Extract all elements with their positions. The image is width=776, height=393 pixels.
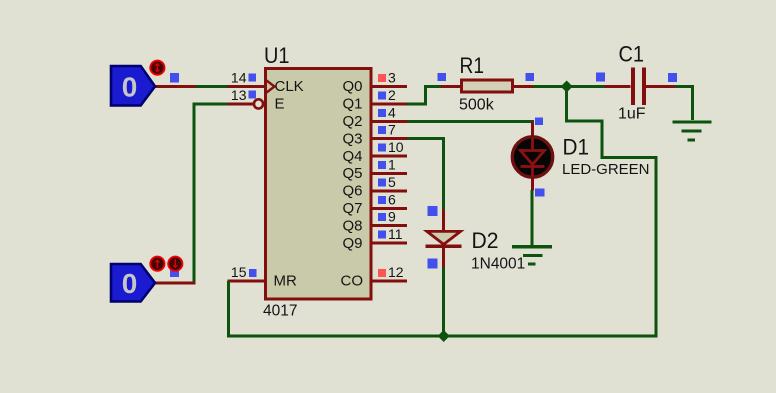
pin 13 stub <box>227 102 254 105</box>
toggle actuator bottom-1 (up arrow) <box>150 257 164 271</box>
svg-text:R1: R1 <box>460 53 485 78</box>
node square D2 bottom <box>428 259 438 269</box>
op-amp U1 body <box>266 69 372 300</box>
pin 9 stub Q8 <box>372 224 408 227</box>
svg-text:9: 9 <box>388 209 396 225</box>
svg-text:10: 10 <box>388 139 404 155</box>
pin 1 stub Q5 <box>372 172 408 175</box>
node square pin1 <box>378 161 386 169</box>
pin 14 stub <box>227 85 265 88</box>
svg-text:13: 13 <box>231 87 247 103</box>
pin 12 stub CO <box>372 279 408 282</box>
svg-text:Q7: Q7 <box>342 200 362 217</box>
svg-text:1N4001: 1N4001 <box>471 255 525 272</box>
node square pin7 <box>378 126 386 134</box>
wire E net: pin13 left then down to bottom input <box>194 104 227 283</box>
node square pin6 <box>378 196 386 204</box>
svg-text:15: 15 <box>231 264 247 280</box>
wire Q3 to D2 top <box>407 139 444 210</box>
toggle actuator bottom-2 (down arrow) <box>168 257 182 271</box>
pin labels Q0-Q9 <box>342 78 362 252</box>
node square pin12 (red) <box>378 269 386 277</box>
LED D1 body <box>512 137 552 177</box>
toggle actuator top (up-down arrow) <box>150 61 164 75</box>
pin 15 stub <box>227 279 265 282</box>
junction node at bottom rail / D2 <box>438 330 450 342</box>
wire Q1 to R1 left <box>407 87 441 104</box>
capacitor C1 right stub <box>645 85 675 88</box>
capacitor C1 left stub <box>605 85 631 88</box>
svg-text:MR: MR <box>274 273 297 290</box>
pin 6 stub Q7 <box>372 207 408 210</box>
svg-text:Q6: Q6 <box>342 183 362 200</box>
pin 5 stub Q6 <box>372 189 408 192</box>
wire CLK input: logic state to pin14 <box>195 85 227 88</box>
svg-text:LED-GREEN: LED-GREEN <box>562 161 650 178</box>
resistor R1 left stub <box>441 85 461 88</box>
svg-text:7: 7 <box>388 122 396 138</box>
wire Q2 to LED D1 top <box>407 120 534 123</box>
svg-text:Q9: Q9 <box>342 235 362 252</box>
svg-text:Q1: Q1 <box>342 96 362 113</box>
pin number labels right <box>388 70 404 280</box>
svg-text:1: 1 <box>388 157 396 173</box>
node square pin3 (red) <box>378 74 386 82</box>
pin stubs right <box>372 87 408 281</box>
wire MR net: MR down, bottom rail, right riser, staircase to R1/C1 junction <box>229 87 656 337</box>
wire C1 right to ground <box>675 87 692 121</box>
diode D2 triangle <box>427 231 461 244</box>
svg-text:14: 14 <box>231 70 247 86</box>
svg-text:CO: CO <box>341 273 364 290</box>
svg-text:D2: D2 <box>472 228 499 253</box>
junction node at R1/C1 <box>561 81 573 93</box>
svg-text:D1: D1 <box>563 135 590 160</box>
svg-text:U1: U1 <box>264 43 290 68</box>
wire junction to C1 left <box>567 85 605 88</box>
resistor R1 body <box>462 80 513 92</box>
node square pin5 <box>378 178 386 186</box>
svg-text:E: E <box>275 96 285 113</box>
node square C1 right <box>668 73 677 82</box>
pin E bubble <box>254 99 263 108</box>
node square R1 right <box>526 73 535 81</box>
connection point squares, right pins <box>378 74 386 277</box>
capacitor C1 right plate <box>642 67 646 105</box>
svg-text:4: 4 <box>388 104 396 120</box>
logic state input top: pentagon body <box>111 66 155 106</box>
svg-text:5: 5 <box>388 174 396 190</box>
svg-text:0: 0 <box>122 72 138 103</box>
logic state input bottom: pentagon body <box>111 264 155 302</box>
svg-text:4017: 4017 <box>263 303 297 320</box>
node square pin2 <box>378 91 386 99</box>
node square D2 top <box>428 206 438 216</box>
node square pin13 <box>249 91 257 99</box>
svg-text:Q0: Q0 <box>342 78 362 95</box>
resistor R1 right stub <box>513 85 533 88</box>
node square LED top <box>535 117 543 125</box>
svg-text:Q2: Q2 <box>342 113 362 130</box>
LED D1 bottom stub <box>531 177 534 191</box>
wire LED bottom to ground <box>531 190 534 245</box>
svg-text:11: 11 <box>388 226 403 242</box>
pin 4 stub Q2 <box>372 120 408 123</box>
node square top input <box>170 73 179 82</box>
svg-text:Q4: Q4 <box>342 148 362 165</box>
svg-text:2: 2 <box>388 87 396 103</box>
svg-text:12: 12 <box>388 264 404 280</box>
node square C1 left <box>596 73 605 82</box>
pin 11 stub Q9 <box>372 242 408 245</box>
node square bottom input <box>170 269 179 277</box>
node square R1 left <box>438 73 447 81</box>
pin 10 stub Q4 <box>372 155 408 158</box>
diode D2 bottom stub <box>442 247 445 268</box>
node square pin4 <box>378 109 386 117</box>
capacitor C1 left plate <box>631 67 635 105</box>
pin 2 stub Q1 <box>372 102 408 105</box>
connection point squares, left pins <box>249 74 257 278</box>
svg-text:CLK: CLK <box>275 78 304 95</box>
diode D2 cathode bar <box>425 245 461 249</box>
node square pin9 <box>378 213 386 221</box>
pin 3 stub Q0 <box>372 85 408 88</box>
svg-text:500k: 500k <box>459 97 495 114</box>
logic state input bottom: pin stub <box>156 282 196 285</box>
svg-text:Q8: Q8 <box>342 217 362 234</box>
node square pin11 <box>378 231 386 239</box>
svg-text:0: 0 <box>122 268 138 299</box>
svg-text:3: 3 <box>388 70 396 86</box>
LED D1 top stub <box>531 121 534 137</box>
ground (below LED D1) <box>512 245 552 266</box>
logic state input top: pin stub <box>155 85 195 88</box>
node square pin10 <box>378 144 386 152</box>
wire D2 bottom to junction <box>442 268 445 337</box>
pin CLK clock chevron <box>267 81 275 93</box>
svg-text:Q5: Q5 <box>342 165 362 182</box>
node square pin14 <box>249 74 257 82</box>
svg-text:6: 6 <box>388 191 396 207</box>
pin 7 stub Q3 <box>372 137 408 140</box>
pin stubs left (14 CLK, 13 E, 15 MR) <box>227 87 265 281</box>
ground (right of C1) <box>673 120 712 141</box>
svg-text:Q3: Q3 <box>342 130 362 147</box>
node square LED bottom <box>535 189 545 197</box>
LED D1 symbol <box>521 138 545 176</box>
svg-text:1uF: 1uF <box>618 106 646 123</box>
diode D2 top stub <box>442 210 445 232</box>
node square pin15 <box>249 269 257 277</box>
pin number labels left <box>231 70 247 280</box>
wire R1 right to junction <box>533 85 567 88</box>
svg-text:C1: C1 <box>619 42 645 67</box>
